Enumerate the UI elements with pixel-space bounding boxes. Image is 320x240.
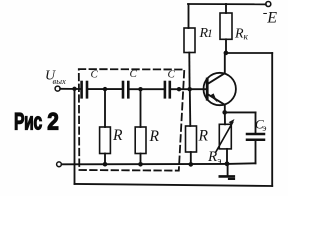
terminal -E: [266, 2, 271, 7]
capacitor Ce: [247, 134, 264, 140]
wire left feedback vertical: [74, 89, 76, 184]
node R second on rail: [138, 162, 143, 167]
label C2: [130, 68, 138, 80]
terminal bottom output: [57, 162, 62, 167]
wire R1 top lead: [188, 4, 190, 28]
label Ris 2: [14, 107, 59, 136]
node emitter junction: [222, 110, 227, 115]
resistor R1: [184, 28, 195, 53]
label R1: [199, 26, 213, 41]
svg-text:э: э: [217, 156, 222, 167]
wire Rk top lead: [225, 4, 227, 13]
transistor emitter arrow (PNP): [210, 93, 218, 102]
svg-text:2: 2: [47, 107, 59, 135]
node output junction: [72, 87, 76, 91]
svg-text:E: E: [266, 9, 277, 26]
label C3: [168, 69, 176, 81]
node B: [138, 87, 142, 91]
svg-text:к: к: [244, 33, 249, 43]
svg-text:C: C: [91, 69, 99, 81]
label R first: [112, 127, 123, 144]
wire node A down: [104, 89, 106, 127]
capacitor C1: [82, 82, 87, 97]
wire Re top lead: [224, 112, 226, 124]
node R divider on rail: [189, 162, 194, 167]
terminal Uvyh: [55, 86, 60, 91]
capacitor C2: [123, 82, 128, 97]
wire emitter node to Ce: [225, 111, 256, 113]
wire Ce bottom lead: [255, 141, 257, 163]
wire C3 to base: [171, 88, 206, 90]
wire node B down: [140, 89, 142, 127]
wire right feedback vertical: [271, 53, 273, 186]
svg-text:Рис: Рис: [14, 108, 42, 135]
wire top supply rail: [188, 3, 266, 5]
node base divider junction: [188, 87, 192, 91]
label Uvyh: [45, 69, 66, 87]
ground: [220, 164, 234, 179]
wire C2 to C3: [130, 88, 164, 90]
wire collector node to right side: [226, 52, 272, 54]
transistor emitter stroke: [208, 94, 225, 112]
label Ce: [255, 117, 267, 134]
svg-text:R: R: [207, 149, 217, 165]
transistor collector stroke: [208, 53, 225, 84]
svg-text:1: 1: [207, 28, 213, 40]
label Rk: [234, 27, 249, 43]
label Re: [207, 149, 222, 167]
svg-text:R: R: [149, 128, 160, 145]
resistor R (first shunt): [100, 127, 111, 154]
node A: [103, 87, 107, 91]
resistor R (base divider lower): [186, 126, 197, 152]
svg-text:R: R: [234, 27, 244, 42]
resistor Re arrow: [216, 122, 233, 152]
resistor Re (variable): [219, 124, 231, 149]
wire Re bottom lead: [226, 149, 228, 164]
svg-text:вых: вых: [53, 76, 66, 86]
wire R divider bottom lead: [190, 152, 192, 164]
wire output to C1: [60, 88, 80, 90]
label C1: [91, 69, 99, 81]
wire C1 to C2: [88, 88, 121, 90]
wire R1 bottom lead to base node: [188, 53, 190, 90]
node collector junction: [224, 51, 229, 56]
wire base node down to divider resistor: [189, 89, 192, 126]
node C3 output: [177, 87, 181, 91]
label R divider: [198, 128, 209, 145]
transistor Q1 circle: [204, 73, 236, 105]
wire common rail: [62, 163, 256, 164]
svg-text:R: R: [112, 127, 123, 144]
wire bottom feedback run: [75, 184, 273, 186]
wire R second bottom lead: [140, 154, 142, 165]
node Re on rail: [225, 161, 230, 166]
label -E: [263, 5, 278, 26]
wire Ce top lead: [255, 112, 257, 132]
transistor base bar: [206, 79, 209, 99]
wire R1 shunt bottom lead: [104, 154, 106, 165]
label R second: [149, 128, 160, 145]
node R first on rail: [103, 162, 108, 167]
resistor R (second shunt): [135, 127, 146, 154]
resistor Rk: [220, 13, 232, 39]
dashed phase network box: [79, 69, 185, 171]
svg-text:э: э: [263, 123, 267, 133]
wire Rk bottom lead: [225, 39, 227, 53]
capacitor C3: [165, 82, 170, 97]
svg-text:R: R: [198, 128, 209, 145]
